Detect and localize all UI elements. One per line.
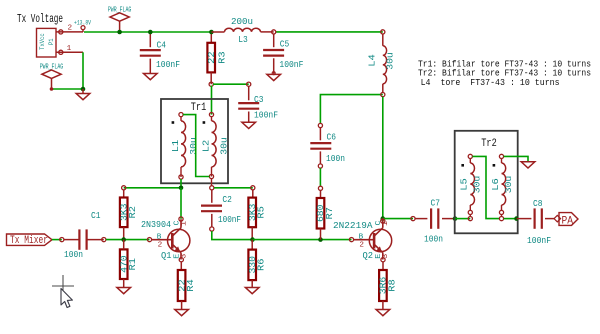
junction rail/flag (117, 30, 122, 35)
polarity dot L6 (493, 164, 496, 167)
capacitor C4 (149, 32, 151, 47)
svg-text:L4 tore FT37-43 : 10 turns: L4 tore FT37-43 : 10 turns (421, 77, 560, 88)
node R3 bottom (209, 82, 213, 86)
wire L4 down to Q2 collector (382, 97, 384, 219)
wire pin1 down (82, 52, 84, 89)
wire L6 top to ground (504, 156, 528, 161)
svg-text:Q1: Q1 (161, 250, 172, 261)
svg-text:PWR_FLAG: PWR_FLAG (108, 7, 132, 15)
svg-text:Tx Mixer: Tx Mixer (10, 235, 48, 247)
junction Tr2 right (514, 216, 519, 221)
svg-text:30u: 30u (188, 137, 199, 155)
capacitor C7 100n (411, 217, 415, 221)
svg-text:100nF: 100nF (279, 59, 303, 70)
svg-text:R7: R7 (324, 207, 335, 220)
svg-text:100nF: 100nF (156, 59, 180, 70)
resistor R5 3K3 (252, 190, 254, 198)
power flag PWR_FLAG (rail) (110, 13, 129, 21)
svg-text:R2: R2 (127, 206, 138, 219)
wire collector to C7 (383, 218, 413, 220)
svg-text:100nF: 100nF (218, 214, 241, 225)
resistor R6 330 (251, 240, 253, 250)
wire to PWR_FLAG (52, 88, 84, 90)
wire R3 node down to Tr1 L2 (211, 86, 213, 115)
svg-text:R4: R4 (185, 279, 196, 292)
wire R2 to collector node (124, 187, 181, 189)
transistor Q2 2N2219A (349, 238, 353, 242)
capacitor C3 100nF (247, 82, 251, 86)
capacitor C6 100n (318, 123, 322, 127)
svg-text:100n: 100n (424, 234, 443, 245)
junction gnd node (81, 87, 86, 92)
Q2 collector pin (381, 219, 385, 223)
svg-text:C7: C7 (431, 198, 441, 209)
svg-text:PWR_FLAG: PWR_FLAG (40, 64, 64, 72)
ground (R1) (117, 288, 131, 294)
svg-text:+13.8V: +13.8V (74, 20, 91, 27)
wire base line to Q2 (321, 239, 352, 241)
inductor L4 30u (381, 30, 385, 34)
transistor Q1 2N3904 (147, 238, 151, 242)
power symbol +13.8V (81, 26, 85, 30)
mouse pointer (61, 289, 72, 308)
ground (C3) (242, 122, 256, 128)
svg-text:2N2219A: 2N2219A (333, 220, 373, 231)
wire Tr1 internal L1top-L2bottom (183, 115, 210, 177)
svg-text:Tr2: Tr2 (481, 138, 497, 150)
ground (C5) (267, 74, 281, 80)
svg-text:22: 22 (206, 51, 217, 64)
svg-text:Tr1: Tr1 (191, 102, 207, 114)
ground (R6) (245, 288, 259, 294)
connector P1 (37, 28, 57, 57)
svg-text:C8: C8 (533, 198, 543, 209)
resistor R8 3R6 (382, 262, 384, 270)
junction R5/R6/base line (250, 237, 255, 242)
winding L1 30u (179, 113, 183, 117)
resistor R7 680 (318, 186, 322, 190)
P1 pin 2 (56, 31, 83, 33)
svg-text:L5: L5 (459, 178, 470, 191)
svg-text:R6: R6 (256, 259, 267, 272)
polarity dot L1 (172, 121, 175, 124)
ground (P1) (82, 89, 84, 94)
winding L6 30u (499, 154, 503, 158)
transformer Tr2 box (455, 131, 518, 234)
svg-text:30u: 30u (503, 176, 514, 194)
svg-text:100nF: 100nF (254, 110, 278, 121)
svg-text:L6: L6 (490, 178, 501, 191)
svg-text:C5: C5 (280, 39, 290, 50)
wire rail to L3 junction (276, 31, 383, 33)
wire +V rail (84, 31, 211, 33)
wire collector node down to Q1 (180, 188, 182, 219)
wire C7 to L5 (455, 218, 470, 220)
Q1 collector pin (179, 217, 183, 221)
ground (R4) (175, 310, 189, 316)
Q1 emitter pin (179, 258, 183, 262)
svg-text:1: 1 (180, 221, 188, 226)
svg-text:30u: 30u (472, 176, 483, 194)
svg-text:R1: R1 (127, 257, 138, 270)
svg-text:R3: R3 (216, 51, 227, 64)
svg-text:PA: PA (562, 215, 574, 227)
junction collector node (179, 186, 184, 191)
svg-text:B: B (157, 233, 162, 241)
wire C1 to Q1 base (106, 239, 150, 241)
junction rail/R3/L3 (209, 30, 214, 35)
wire Tr2 internal L5top-L6bottom (472, 156, 499, 218)
svg-text:C6: C6 (327, 132, 337, 143)
winding L2 30u (209, 113, 213, 117)
resistor R4 22 (180, 262, 182, 270)
svg-text:30u: 30u (385, 52, 396, 70)
wire C6 to R7 (319, 168, 321, 186)
P1 pin 1 (56, 51, 83, 53)
svg-text:L4: L4 (367, 54, 378, 67)
svg-text:B: B (359, 233, 364, 241)
wire L2 bottom stub (211, 179, 213, 186)
Q2 emitter pin (381, 258, 385, 262)
capacitor C1 100n (60, 238, 64, 242)
svg-text:200u: 200u (231, 16, 253, 27)
capacitor C5 100nF (272, 30, 276, 34)
editor crosshair cursor (52, 285, 74, 287)
svg-text:2: 2 (158, 242, 163, 250)
ground (R8) (376, 310, 390, 316)
power flag PWR_FLAG (gnd) (42, 70, 61, 78)
node L2/C2/R5 (210, 186, 214, 190)
svg-text:L2: L2 (200, 140, 211, 153)
resistor R3 22 (210, 32, 212, 43)
wire label to C1 (52, 239, 62, 241)
svg-text:100nF: 100nF (527, 235, 551, 246)
capacitor C2 100nF (211, 190, 213, 203)
wire C6 top from L4 line (320, 95, 382, 124)
wire L6 bottom to box edge (499, 217, 503, 221)
transformer Tr1 box (161, 99, 228, 183)
wire R3 node to C3 (213, 83, 249, 85)
svg-text:C3: C3 (254, 94, 264, 105)
junction base/R2/R1 (121, 237, 126, 242)
resistor R2 3K3 (122, 186, 126, 190)
ground (C4) (144, 74, 158, 80)
node R5 top (251, 186, 255, 190)
svg-text:L1: L1 (170, 139, 181, 152)
svg-text:R8: R8 (386, 279, 397, 292)
junction Q2 collector (381, 216, 386, 221)
svg-text:L3: L3 (238, 34, 248, 45)
svg-text:2: 2 (68, 24, 73, 32)
junction R7 bottom (318, 237, 323, 242)
svg-text:R5: R5 (256, 206, 267, 219)
polarity dot L5 (461, 164, 464, 167)
ground (Tr2) (521, 162, 535, 168)
resistor R1 470 (120, 249, 128, 279)
inductor L3 200u (211, 31, 224, 33)
svg-text:C4: C4 (157, 40, 167, 51)
junction rail/C4 (148, 30, 153, 35)
polarity dot L2 (203, 121, 206, 124)
svg-text:30u: 30u (219, 137, 230, 155)
svg-text:100n: 100n (64, 249, 83, 260)
hierarchical label PA (559, 213, 578, 226)
wire L1 bottom stub (180, 179, 182, 188)
wire C2 to base line (212, 231, 253, 240)
svg-text:TxVcc: TxVcc (39, 33, 46, 50)
svg-text:Q2: Q2 (363, 250, 374, 261)
wire L2 node to R5 (214, 187, 253, 189)
svg-text:2: 2 (359, 242, 364, 250)
svg-text:C1: C1 (91, 210, 101, 221)
svg-text:C2: C2 (222, 194, 232, 205)
svg-text:Tx Voltage: Tx Voltage (17, 12, 63, 26)
wire base line R5-R7 (253, 239, 321, 241)
junction C7/Tr2 (453, 216, 458, 221)
hierarchical label Tx Mixer (7, 234, 53, 245)
capacitor C8 100nF (517, 218, 532, 220)
winding L5 30u (468, 154, 472, 158)
svg-text:100n: 100n (326, 153, 345, 164)
svg-text:1: 1 (67, 45, 72, 53)
svg-text:P1: P1 (48, 38, 55, 45)
svg-text:2N3904: 2N3904 (141, 219, 171, 230)
